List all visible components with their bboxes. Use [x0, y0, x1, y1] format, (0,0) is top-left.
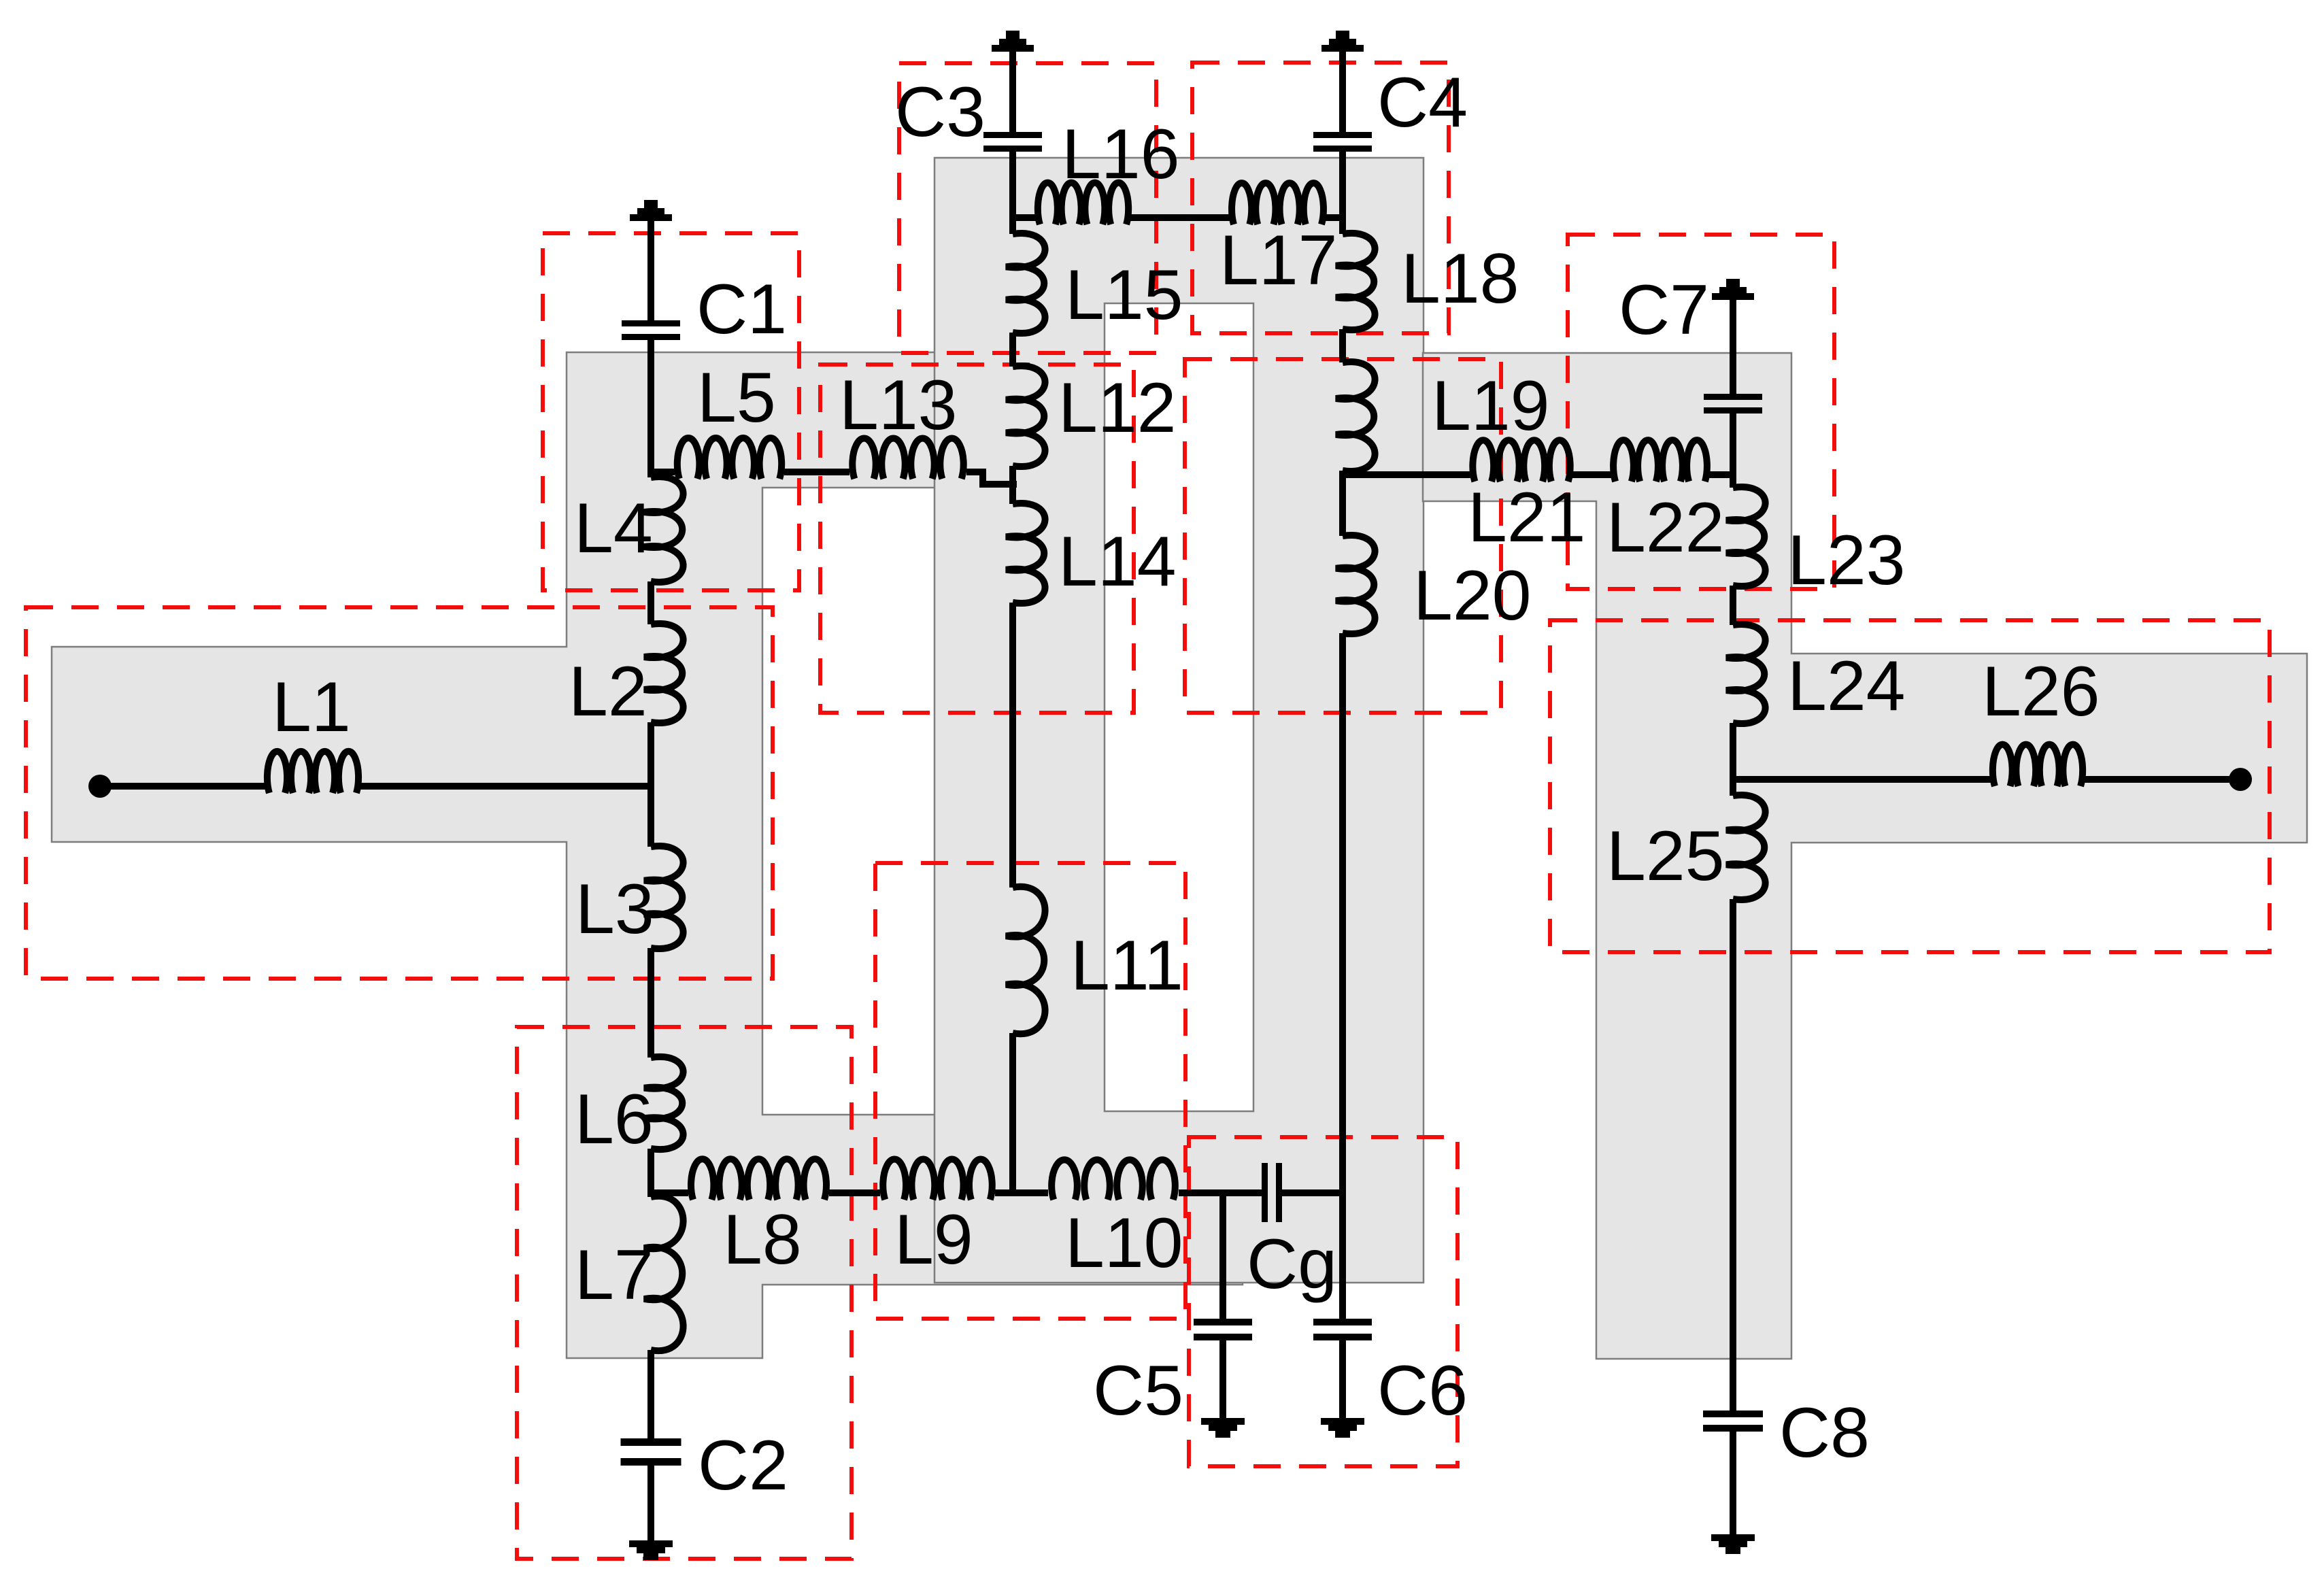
svg-text:L16: L16: [1062, 115, 1180, 194]
svg-text:L25: L25: [1606, 817, 1725, 896]
svg-text:L21: L21: [1468, 478, 1586, 557]
wire L6 to L7 (node with L8): [647, 1149, 654, 1197]
svg-text:L9: L9: [894, 1200, 973, 1279]
svg-text:L23: L23: [1787, 521, 1906, 600]
svg-text:L20: L20: [1413, 556, 1532, 635]
wire Cg to C4 column: [1282, 1189, 1346, 1196]
wire L23 to L24: [1730, 586, 1736, 625]
svg-text:L6: L6: [575, 1080, 654, 1159]
wire node to L26: [1733, 776, 1991, 783]
wire L7 to C2: [647, 1350, 654, 1438]
svg-text:L15: L15: [1065, 256, 1183, 335]
inductor L8: [691, 1159, 826, 1200]
dashed group box L13 L12 L14: [820, 365, 1134, 713]
ground stub (top of C7): [1712, 293, 1754, 300]
wire node to L8: [651, 1189, 688, 1196]
inductor L1: [267, 751, 358, 793]
svg-text:L17: L17: [1219, 221, 1338, 300]
wire L1 to node L2/L3: [360, 783, 654, 790]
output port node: [2229, 768, 2252, 791]
wire C7 to node L22: [1730, 413, 1736, 488]
svg-text:L1: L1: [272, 668, 351, 747]
inductor L12: [1006, 366, 1045, 467]
ground (below C8): [1711, 1534, 1755, 1541]
wire C5 to ground: [1219, 1340, 1226, 1418]
wire L5 to L13: [784, 469, 849, 475]
svg-text:C5: C5: [1093, 1351, 1183, 1430]
wire C8 to ground: [1730, 1432, 1736, 1534]
wire node to C5: [1219, 1193, 1226, 1319]
inductor L17: [1232, 183, 1324, 224]
capacitor Cg (series): [1262, 1163, 1268, 1222]
input port node: [88, 775, 112, 798]
wire L15 to L12: [1009, 333, 1016, 367]
wire ground to C4: [1339, 52, 1346, 132]
ground (below C6): [1321, 1418, 1364, 1425]
wire port to L1: [100, 783, 265, 790]
dashed group box C1 L5 L4: [543, 233, 799, 590]
svg-text:L10: L10: [1065, 1204, 1183, 1283]
microstrip metal: resonator 4 (output): [1423, 353, 2307, 1359]
inductor L21: [1472, 440, 1570, 482]
svg-text:C3: C3: [895, 73, 986, 152]
svg-text:L18: L18: [1401, 239, 1519, 318]
svg-text:L5: L5: [697, 358, 776, 437]
ground (below C5): [1201, 1418, 1245, 1425]
microstrip metal: middle ring resonator: [934, 158, 1424, 1283]
wire node to L16: [1013, 214, 1036, 221]
inductor L24: [1726, 624, 1766, 724]
dashed group box C3 L16 L15: [899, 63, 1156, 353]
svg-text:C2: C2: [698, 1426, 788, 1505]
capacitor C3: [983, 132, 1042, 138]
inductor L16: [1038, 183, 1128, 224]
dashed group box Cg C5 C6: [1189, 1137, 1458, 1466]
wire L11 to bottom line: [1009, 1033, 1016, 1196]
capacitor C6: [1313, 1319, 1372, 1325]
svg-text:L7: L7: [575, 1236, 654, 1315]
wire C6 to ground: [1339, 1340, 1346, 1418]
dashed group box L1 L2 L3: [26, 607, 773, 979]
wire node to L15: [1009, 218, 1016, 234]
svg-text:L14: L14: [1058, 522, 1177, 601]
wire L26 to output port: [2085, 776, 2240, 783]
wire L12 to L14 (node L13): [1009, 466, 1016, 504]
inductor L20: [1336, 535, 1375, 634]
ground (top of C3): [992, 45, 1034, 52]
svg-text:C7: C7: [1619, 271, 1709, 350]
svg-text:L4: L4: [574, 489, 653, 568]
wire node to L5: [651, 469, 675, 475]
wire L10 to Cg (node C5): [1179, 1189, 1262, 1196]
svg-text:L2: L2: [569, 652, 647, 731]
wire L21 to L22: [1572, 471, 1611, 478]
microstrip metal: resonator 1 (input): [52, 352, 1243, 1358]
inductor L26: [1993, 745, 2083, 786]
svg-text:L12: L12: [1058, 369, 1177, 447]
capacitor C1: [622, 320, 680, 326]
wire C4 to node L17: [1339, 152, 1346, 234]
dashed group box C4 L17 L18: [1192, 63, 1449, 333]
wire L13 to node L12/L14 (jog): [966, 472, 1017, 484]
wire C2 to ground: [647, 1466, 654, 1540]
inductor L2: [644, 624, 684, 723]
dashed group box C2 L6 L7 L8: [517, 1027, 852, 1559]
wire C3 to node L16: [1009, 152, 1016, 221]
svg-text:C6: C6: [1377, 1351, 1468, 1430]
inductor L3: [644, 846, 684, 949]
inductor L13: [852, 439, 963, 479]
dashed group box C7 L22 L23: [1568, 235, 1834, 589]
inductor L4: [644, 477, 684, 582]
wire L24 to L25 (node L26): [1730, 723, 1736, 796]
svg-text:L13: L13: [839, 366, 958, 445]
inductor L6: [644, 1057, 684, 1149]
wire L2 to L3 (node with L1): [647, 722, 654, 847]
capacitor C7: [1704, 394, 1762, 400]
svg-text:L26: L26: [1982, 652, 2100, 731]
inductor L14: [1006, 503, 1045, 603]
inductor L5: [677, 438, 781, 479]
wire L3 to L6: [647, 948, 654, 1058]
capacitor C4: [1313, 132, 1372, 138]
wire node to L20: [1339, 475, 1346, 536]
wire ground to C1: [647, 221, 654, 320]
inductor L25: [1726, 795, 1766, 900]
svg-text:C4: C4: [1377, 63, 1468, 142]
capacitor C8: [1703, 1410, 1763, 1417]
dashed group box L19 L20: [1185, 359, 1501, 713]
ground (below C2): [629, 1540, 673, 1547]
svg-text:Cg: Cg: [1247, 1225, 1337, 1304]
inductor L11: [1006, 887, 1045, 1034]
wire node to L21: [1343, 471, 1470, 478]
svg-text:L3: L3: [575, 870, 654, 949]
wire L20 to bottom node: [1339, 633, 1346, 1319]
ground (top of C1): [630, 214, 672, 221]
wire L4 to L2: [647, 581, 654, 624]
svg-text:L8: L8: [723, 1200, 802, 1279]
dashed group box L24 L25 L26: [1550, 620, 2270, 952]
wire ground to C3: [1009, 52, 1016, 132]
svg-text:C1: C1: [696, 270, 787, 349]
dashed group box L9 L10 L11: [875, 863, 1185, 1319]
capacitor C5: [1194, 1319, 1252, 1325]
wire L8 to L9: [829, 1189, 880, 1196]
svg-text:C8: C8: [1779, 1393, 1870, 1472]
inductor L18: [1336, 233, 1375, 330]
capacitor C2: [621, 1438, 681, 1446]
wire L19 node corner: [1339, 471, 1346, 478]
wire L9 to node L11: [995, 1189, 1048, 1196]
ground (top of C4): [1321, 45, 1364, 52]
inductor L10: [1051, 1160, 1175, 1200]
inductor L9: [883, 1160, 992, 1200]
svg-text:L19: L19: [1432, 367, 1550, 445]
wire L25 to C8: [1730, 899, 1736, 1410]
wire L22 to C7 column: [1709, 471, 1736, 478]
inductor L23: [1726, 487, 1766, 586]
wire stub to C7: [1730, 300, 1736, 394]
inductor L19: [1336, 362, 1375, 471]
svg-text:L11: L11: [1071, 926, 1183, 1005]
wire L16 to L17: [1130, 214, 1230, 221]
inductor L22: [1613, 440, 1707, 482]
svg-text:L22: L22: [1606, 488, 1725, 567]
wire L17 to C4 column: [1326, 214, 1346, 221]
svg-text:L24: L24: [1787, 647, 1906, 726]
wire C1 to L4: [647, 340, 654, 477]
wire L14 to L11: [1009, 603, 1016, 888]
wire L18 to L19: [1339, 329, 1346, 362]
inductor L7: [644, 1196, 684, 1351]
inductor L15: [1006, 233, 1045, 333]
